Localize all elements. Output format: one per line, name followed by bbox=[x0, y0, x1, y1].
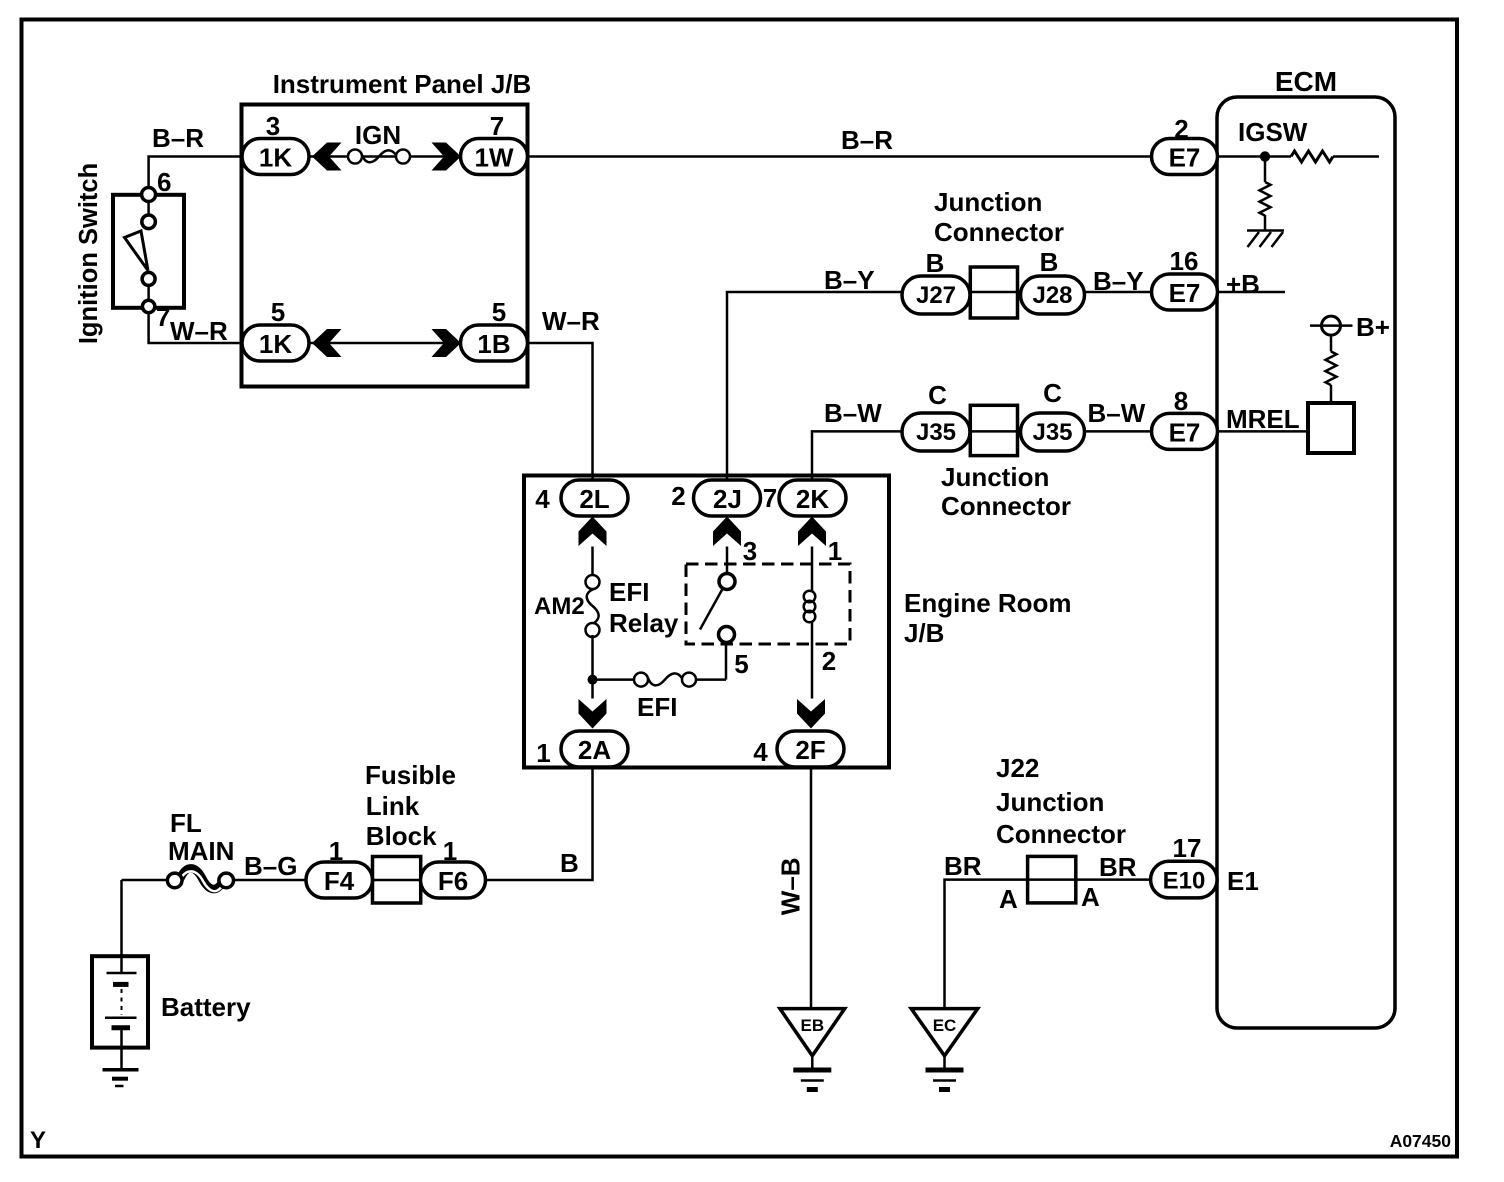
svg-text:B: B bbox=[926, 248, 945, 278]
svg-text:Engine Room: Engine Room bbox=[904, 588, 1072, 618]
svg-text:Junction: Junction bbox=[941, 462, 1049, 492]
svg-text:7: 7 bbox=[156, 302, 170, 332]
svg-text:7: 7 bbox=[763, 483, 777, 513]
svg-text:EB: EB bbox=[800, 1016, 824, 1035]
svg-text:J28: J28 bbox=[1032, 282, 1072, 309]
svg-text:FL: FL bbox=[170, 808, 202, 838]
svg-text:F6: F6 bbox=[438, 866, 468, 896]
svg-text:8: 8 bbox=[1174, 386, 1188, 416]
svg-text:IGN: IGN bbox=[355, 120, 401, 150]
svg-text:16: 16 bbox=[1170, 246, 1199, 276]
svg-text:Link: Link bbox=[366, 791, 420, 821]
svg-text:2L: 2L bbox=[579, 484, 609, 514]
svg-text:1: 1 bbox=[828, 536, 842, 566]
svg-text:2F: 2F bbox=[795, 735, 825, 765]
svg-text:2K: 2K bbox=[796, 484, 829, 514]
svg-text:+B: +B bbox=[1226, 269, 1260, 299]
svg-text:B–W: B–W bbox=[1088, 398, 1146, 428]
svg-text:1K: 1K bbox=[259, 143, 292, 173]
svg-text:B–R: B–R bbox=[841, 125, 893, 155]
svg-text:Instrument Panel J/B: Instrument Panel J/B bbox=[273, 69, 532, 99]
svg-text:2: 2 bbox=[822, 646, 836, 676]
svg-text:BR: BR bbox=[1099, 852, 1137, 882]
svg-text:2J: 2J bbox=[713, 484, 742, 514]
svg-text:2: 2 bbox=[1174, 114, 1188, 144]
svg-text:Junction: Junction bbox=[934, 187, 1042, 217]
svg-text:J27: J27 bbox=[916, 282, 956, 309]
svg-text:1K: 1K bbox=[259, 329, 292, 359]
svg-text:1: 1 bbox=[536, 738, 550, 768]
svg-text:B–R: B–R bbox=[152, 123, 204, 153]
svg-text:W–R: W–R bbox=[170, 316, 228, 346]
svg-text:1: 1 bbox=[329, 836, 343, 866]
svg-text:ECM: ECM bbox=[1275, 66, 1337, 97]
svg-text:EFI: EFI bbox=[609, 577, 649, 607]
svg-text:B: B bbox=[560, 848, 579, 878]
svg-text:4: 4 bbox=[753, 737, 768, 767]
svg-text:Connector: Connector bbox=[934, 217, 1064, 247]
svg-text:Y: Y bbox=[30, 1127, 46, 1154]
svg-text:J35: J35 bbox=[916, 419, 956, 446]
svg-text:MAIN: MAIN bbox=[168, 836, 234, 866]
svg-text:B–W: B–W bbox=[824, 398, 882, 428]
svg-text:B+: B+ bbox=[1356, 312, 1390, 342]
svg-text:BR: BR bbox=[944, 851, 982, 881]
svg-text:E7: E7 bbox=[1169, 417, 1201, 447]
svg-text:E1: E1 bbox=[1227, 866, 1259, 896]
svg-text:EFI: EFI bbox=[637, 692, 677, 722]
svg-text:4: 4 bbox=[535, 484, 550, 514]
svg-text:Ignition Switch: Ignition Switch bbox=[75, 163, 103, 344]
svg-text:5: 5 bbox=[271, 297, 285, 327]
svg-text:F4: F4 bbox=[324, 866, 355, 896]
svg-text:EC: EC bbox=[933, 1016, 957, 1035]
svg-text:IGSW: IGSW bbox=[1238, 117, 1308, 147]
svg-text:C: C bbox=[928, 380, 947, 410]
svg-text:E7: E7 bbox=[1169, 143, 1201, 173]
svg-text:1B: 1B bbox=[477, 329, 510, 359]
svg-text:2: 2 bbox=[671, 481, 685, 511]
svg-text:J22: J22 bbox=[996, 753, 1039, 783]
svg-text:1: 1 bbox=[443, 836, 457, 866]
svg-text:B–G: B–G bbox=[244, 851, 297, 881]
svg-text:A: A bbox=[999, 884, 1018, 914]
svg-text:Junction: Junction bbox=[996, 787, 1104, 817]
svg-text:17: 17 bbox=[1173, 833, 1202, 863]
svg-text:Fusible: Fusible bbox=[365, 760, 456, 790]
svg-text:Battery: Battery bbox=[161, 992, 251, 1022]
svg-text:Connector: Connector bbox=[996, 819, 1126, 849]
svg-text:2A: 2A bbox=[578, 735, 611, 765]
svg-text:E10: E10 bbox=[1163, 868, 1206, 895]
svg-text:1W: 1W bbox=[475, 143, 514, 173]
svg-text:J35: J35 bbox=[1032, 419, 1072, 446]
svg-text:5: 5 bbox=[492, 297, 506, 327]
svg-text:Block: Block bbox=[366, 821, 437, 851]
svg-text:B–Y: B–Y bbox=[824, 265, 875, 295]
svg-text:5: 5 bbox=[734, 649, 748, 679]
svg-text:3: 3 bbox=[266, 111, 280, 141]
svg-text:Relay: Relay bbox=[609, 608, 679, 638]
svg-text:J/B: J/B bbox=[904, 618, 944, 648]
svg-text:3: 3 bbox=[743, 536, 757, 566]
svg-text:W–R: W–R bbox=[542, 306, 600, 336]
svg-text:6: 6 bbox=[157, 167, 171, 197]
svg-text:A07450: A07450 bbox=[1390, 1131, 1452, 1151]
svg-text:A: A bbox=[1081, 882, 1100, 912]
svg-text:AM2: AM2 bbox=[534, 593, 585, 620]
svg-text:C: C bbox=[1043, 378, 1062, 408]
svg-text:7: 7 bbox=[490, 111, 504, 141]
svg-text:Connector: Connector bbox=[941, 491, 1071, 521]
svg-text:B–Y: B–Y bbox=[1093, 266, 1144, 296]
svg-text:E7: E7 bbox=[1169, 278, 1201, 308]
svg-text:W–B: W–B bbox=[776, 857, 806, 915]
svg-text:B: B bbox=[1040, 247, 1059, 277]
svg-text:MREL: MREL bbox=[1226, 404, 1300, 434]
